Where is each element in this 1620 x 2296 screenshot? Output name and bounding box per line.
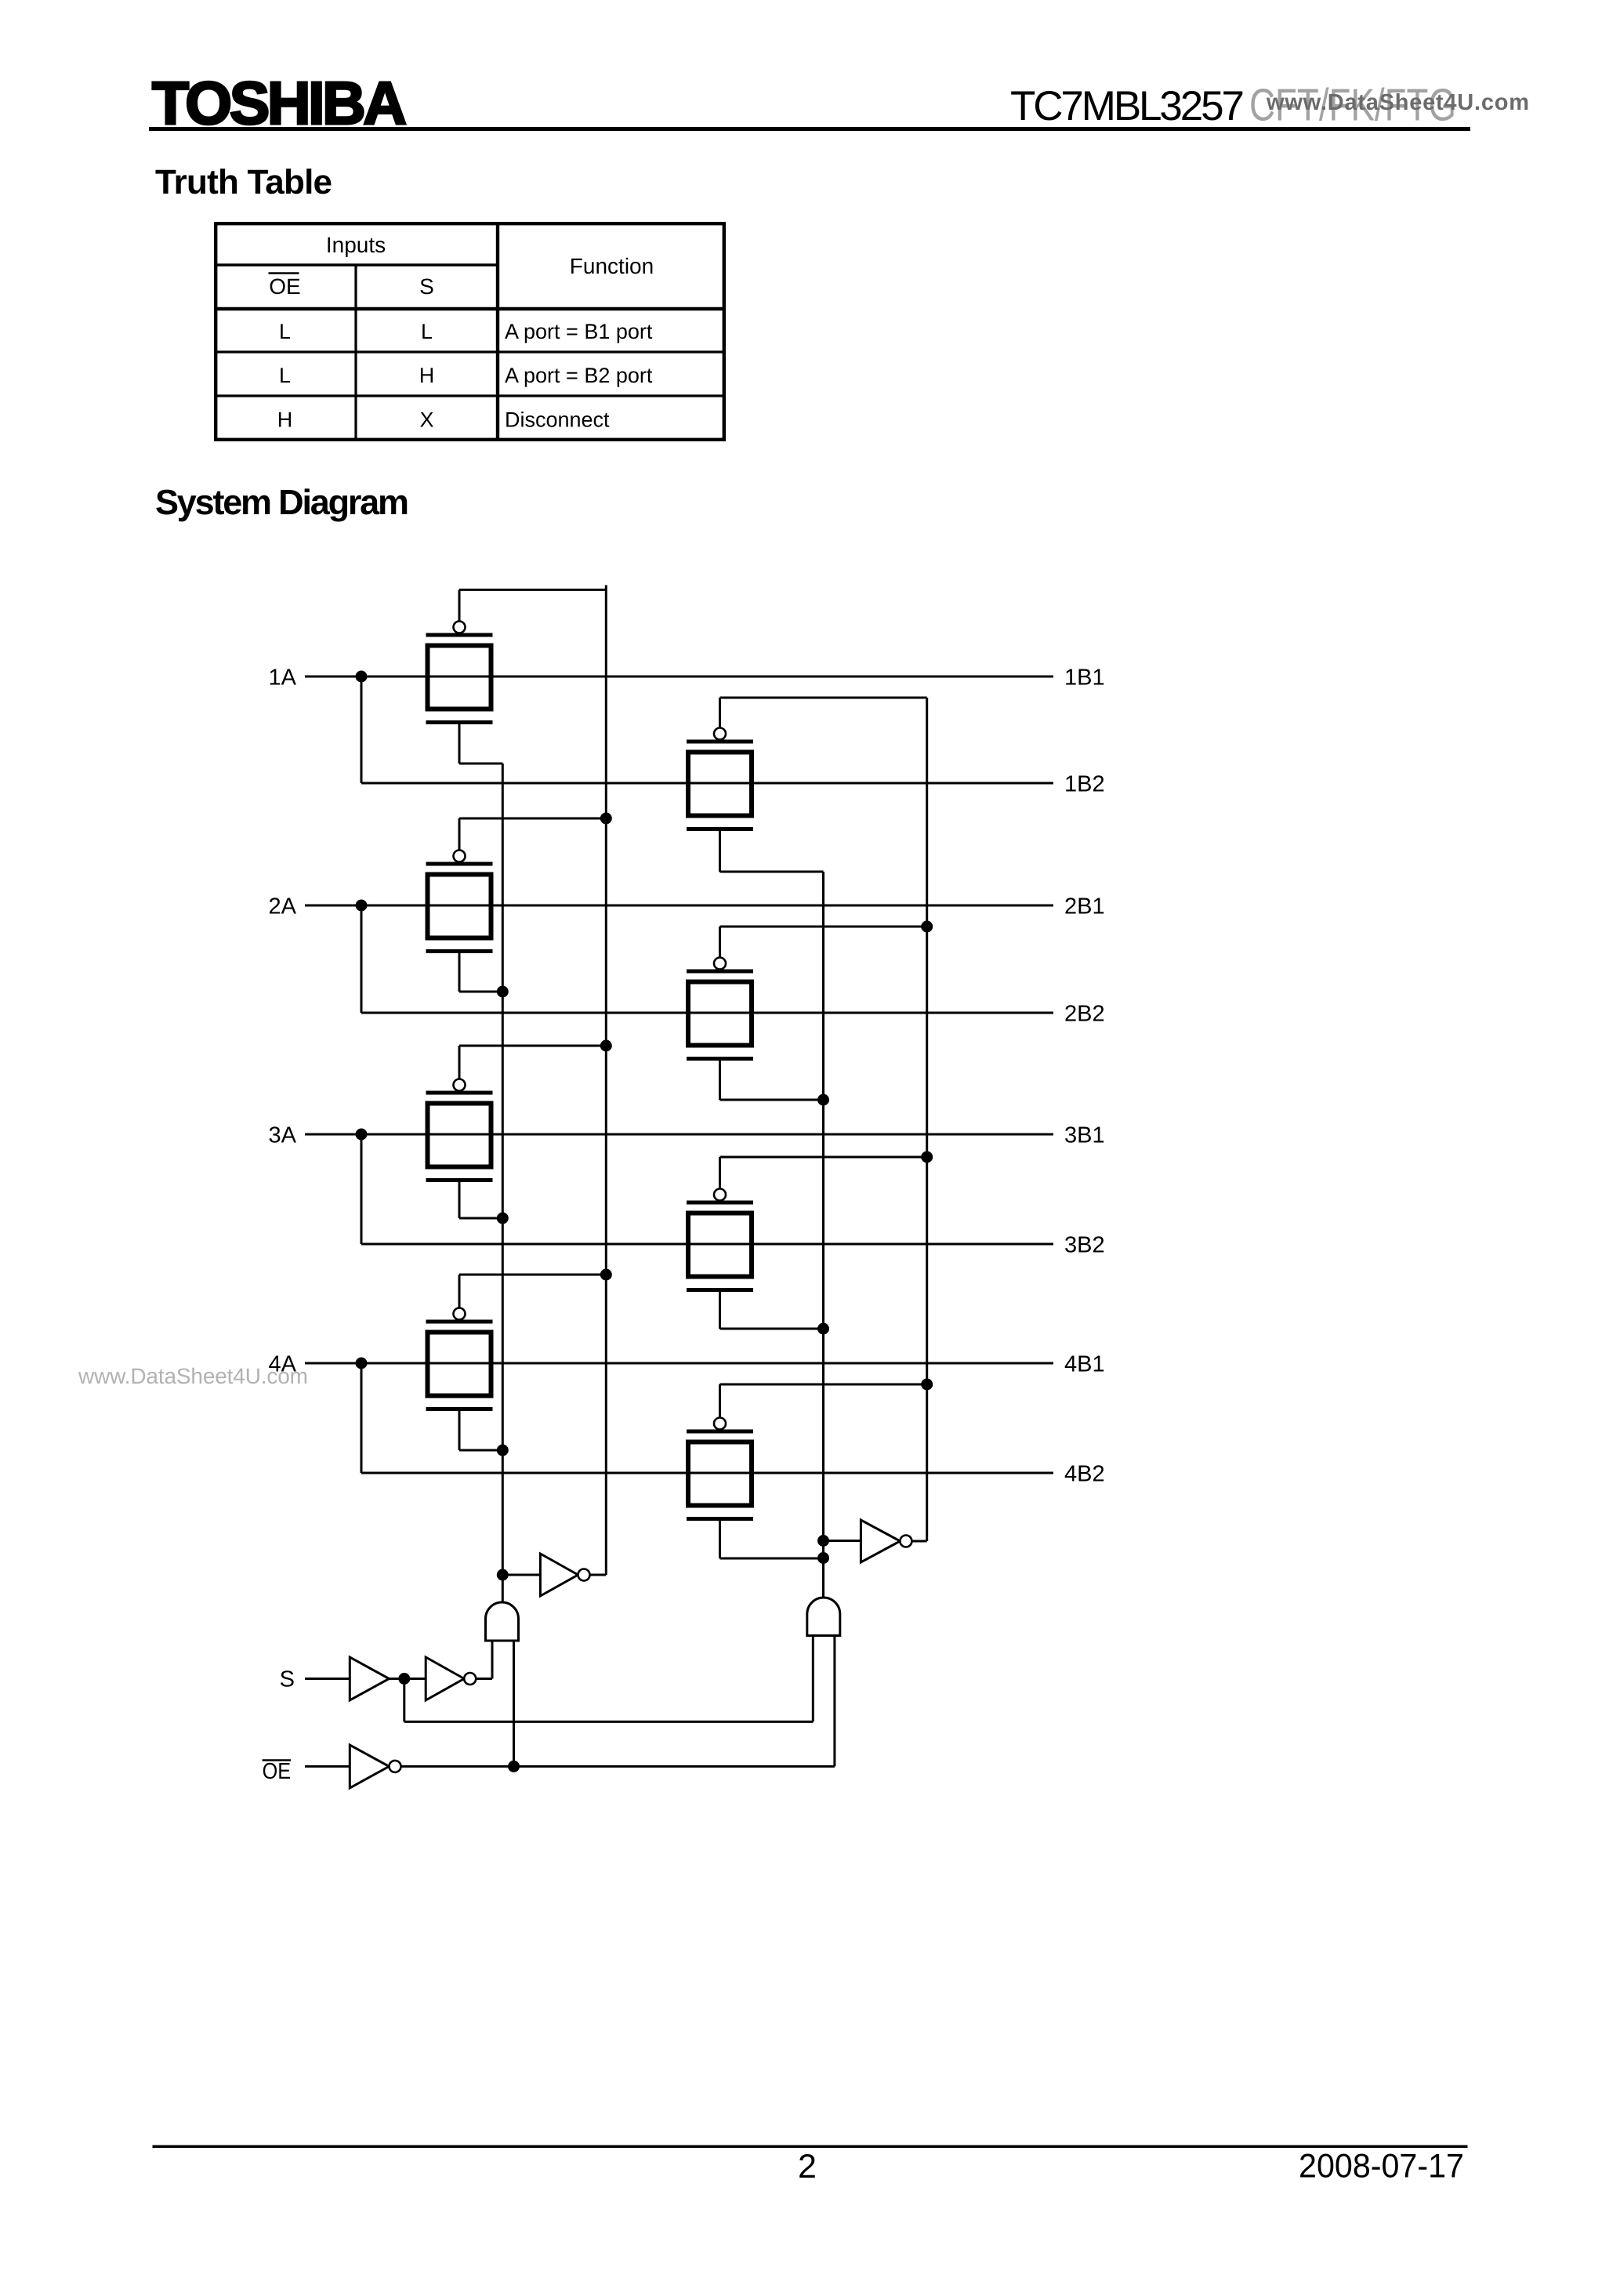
wire AND1 right input <box>513 1641 515 1766</box>
svg-text:www.DataSheet4U.com: www.DataSheet4U.com <box>78 1364 308 1388</box>
svg-text:2A: 2A <box>269 894 297 919</box>
node OE-bar tap for AND1 <box>508 1761 520 1772</box>
node B2 PMOS taps <box>921 921 933 933</box>
pass transistor Q4 (2A-2B2) <box>687 927 927 1100</box>
node B2 NMOS taps <box>817 1094 829 1106</box>
svg-text:3B2: 3B2 <box>1064 1233 1105 1258</box>
wire B1 PMOS control vertical <box>605 585 607 1575</box>
pass transistor Q3 (2A-2B1) <box>426 818 607 992</box>
wire S input <box>305 1678 350 1680</box>
svg-text:2008-07-17: 2008-07-17 <box>1299 2148 1464 2185</box>
svg-text:A port = B1 port: A port = B1 port <box>505 320 653 343</box>
wire 2A branch down to 2B2 <box>361 905 363 1013</box>
wire 4A branch down to 4B2 <box>361 1363 363 1473</box>
wire S tap down and right to AND2 left input <box>403 1679 405 1722</box>
svg-text:2B2: 2B2 <box>1064 1002 1105 1027</box>
svg-text:2B1: 2B1 <box>1064 894 1105 919</box>
wire S buffer out <box>389 1678 426 1680</box>
svg-text:4B1: 4B1 <box>1064 1352 1105 1377</box>
svg-text:TC7MBL3257: TC7MBL3257 <box>1010 83 1245 129</box>
pass transistor Q2 (1A-1B2) <box>687 698 927 872</box>
buffer S stage 1 <box>350 1657 389 1700</box>
svg-text:L: L <box>279 364 291 387</box>
wire 2A to 2B1 <box>305 905 1053 907</box>
pass transistor Q5 (3A-3B1) <box>426 1046 607 1218</box>
svg-text:OE: OE <box>263 1759 292 1784</box>
wire 1A to 1B1 <box>305 676 1053 678</box>
wire 2B2 <box>361 1012 1053 1014</box>
svg-text:3A: 3A <box>269 1123 297 1148</box>
svg-text:Disconnect: Disconnect <box>505 408 610 432</box>
wire 4A to 4B1 <box>305 1362 1053 1365</box>
wire 1A branch down to 1B2 <box>361 676 363 783</box>
svg-text:www.DataSheet4U.com: www.DataSheet4U.com <box>1266 90 1529 115</box>
svg-text:4B2: 4B2 <box>1064 1462 1105 1487</box>
svg-text:S: S <box>280 1667 295 1692</box>
svg-text:A port = B2 port: A port = B2 port <box>505 364 653 387</box>
svg-text:1A: 1A <box>269 666 297 691</box>
wire B2 PMOS control vertical <box>926 698 928 1541</box>
svg-text:H: H <box>277 408 293 432</box>
truth table column divider Inputs/Function <box>496 222 499 441</box>
wire 1B2 <box>361 782 1053 785</box>
wire OE-bar across <box>401 1765 835 1768</box>
svg-text:System Diagram: System Diagram <box>155 482 409 522</box>
truth table thick line under header <box>214 307 726 311</box>
wire 3B2 <box>361 1243 1053 1246</box>
footer rule <box>153 2145 1468 2149</box>
node 2A junction <box>356 900 368 912</box>
svg-text:X: X <box>419 408 433 432</box>
svg-text:3B1: 3B1 <box>1064 1123 1105 1148</box>
truth table line under Inputs <box>214 263 498 267</box>
pass transistor Q1 (1A-1B1) <box>426 589 607 764</box>
wire 3A branch down to 3B2 <box>361 1134 363 1244</box>
AND gate 2 (B2 enable) <box>807 1598 840 1635</box>
inverter U1 (B1 PMOS driver) <box>502 1574 540 1576</box>
node S tap <box>398 1673 410 1685</box>
wire B2 NMOS control vertical <box>822 872 824 1598</box>
node B1 PMOS taps <box>600 813 612 825</box>
inverter S stage 2 <box>426 1657 464 1700</box>
svg-text:S: S <box>419 274 434 299</box>
node 1A junction <box>356 671 368 683</box>
pass transistor Q7 (4A-4B1) <box>426 1275 607 1450</box>
truth table row divider 1 <box>214 350 726 353</box>
svg-text:L: L <box>279 320 291 343</box>
wire AND2 right input <box>833 1636 835 1767</box>
svg-text:1B2: 1B2 <box>1064 772 1105 797</box>
pass transistor Q6 (3A-3B2) <box>687 1157 927 1329</box>
wire 3A to 3B1 <box>305 1133 1053 1136</box>
node 3A junction <box>356 1129 368 1141</box>
inverter OE <box>350 1745 389 1788</box>
svg-text:OE: OE <box>269 274 300 299</box>
svg-text:Function: Function <box>570 254 654 278</box>
node B1 NMOS taps <box>497 986 509 998</box>
wire B1 NMOS control vertical <box>502 764 504 1602</box>
inverter U2 (B2 PMOS driver) <box>824 1540 861 1542</box>
svg-text:1B1: 1B1 <box>1064 666 1105 691</box>
truth table column divider OE/S <box>354 265 357 441</box>
svg-text:L: L <box>421 320 433 343</box>
node 4A junction <box>356 1358 368 1369</box>
svg-text:Inputs: Inputs <box>326 233 386 257</box>
truth table row divider 2 <box>214 394 726 397</box>
truth table outer border <box>216 223 724 440</box>
wire S-bar to AND1 left input <box>476 1678 492 1680</box>
header rule <box>149 127 1470 131</box>
svg-text:H: H <box>419 364 435 387</box>
AND gate 1 (B1 enable) <box>486 1602 519 1641</box>
svg-text:2: 2 <box>798 2148 817 2185</box>
wire 4B2 <box>361 1472 1053 1474</box>
pass transistor Q8 (4A-4B2) <box>687 1384 927 1558</box>
wire OE input <box>305 1765 350 1768</box>
svg-text:Truth Table: Truth Table <box>155 163 332 201</box>
